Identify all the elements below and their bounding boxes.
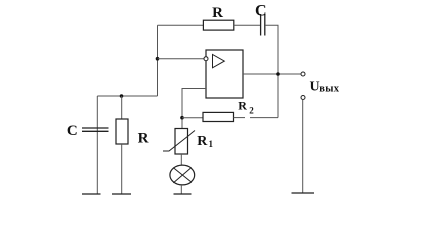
svg-text:R: R [238, 98, 247, 112]
wire between R and C [234, 24, 260, 26]
svg-text:1: 1 [209, 139, 214, 149]
ground under C [82, 193, 101, 195]
wire lamp to ground [180, 185, 182, 194]
wire R branch upper [121, 96, 123, 119]
node junction left network [120, 94, 124, 98]
wire R1 to lamp [180, 154, 182, 165]
op-amp U1 (rectangle style) [204, 50, 243, 98]
wire R2 right segment [250, 117, 278, 119]
resistor R (top feedback) [203, 5, 233, 30]
wire C branch vertical [96, 96, 98, 194]
wire op-amp output [243, 73, 301, 75]
ground under lamp [174, 193, 192, 195]
label Uvyh [310, 79, 340, 94]
terminal output upper [301, 72, 305, 76]
svg-text:R: R [197, 134, 208, 149]
svg-text:R: R [212, 5, 223, 21]
wire terminal to ground [302, 100, 304, 194]
wire op-amp lower input bend [182, 89, 206, 129]
wire top horizontal left segment [158, 24, 204, 26]
lamp HL [170, 165, 195, 185]
svg-text:C: C [255, 2, 267, 19]
wire R branch lower [121, 144, 123, 194]
resistor R2 [203, 98, 254, 121]
ground under R [112, 193, 131, 195]
wire left network top horizontal [97, 95, 157, 97]
wire to R2 [182, 117, 203, 119]
svg-text:вых: вых [319, 83, 339, 94]
wire left feedback vertical [157, 25, 159, 96]
svg-text:2: 2 [249, 106, 254, 116]
wire to inverting input [158, 58, 205, 60]
terminal output lower [301, 96, 305, 100]
ground right [292, 192, 315, 194]
capacitor C (left, to ground) [67, 123, 109, 139]
node junction output / C branch [276, 72, 280, 76]
capacitor C (top feedback) [255, 2, 267, 35]
svg-text:C: C [67, 123, 78, 139]
thermistor R1 [163, 129, 214, 155]
node junction R1/R2 [180, 116, 184, 120]
svg-text:R: R [138, 131, 149, 147]
wire R2 to output node (with small gap under label) [234, 117, 246, 119]
node junction at inverting input branch [156, 57, 160, 61]
svg-text:U: U [310, 79, 320, 94]
resistor R (left, to ground) [116, 119, 149, 147]
wire from C to right vertical [265, 25, 278, 117]
